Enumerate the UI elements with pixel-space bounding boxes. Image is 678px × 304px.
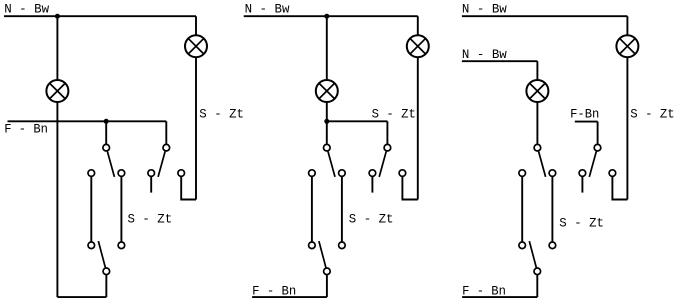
wire S5 right contact to lamp E4 [402, 173, 417, 199]
switch S1 two-way (circuit 1 upper left) [88, 144, 125, 177]
svg-text:F - Bn: F - Bn [4, 122, 48, 136]
wire lamp E5 drop to S7 common [536, 61, 538, 148]
wire correspondence wire B circuit 2 [341, 173, 343, 245]
lamp E3 circuit 2 [316, 80, 338, 102]
wire stub at S2 left contact [150, 173, 152, 193]
svg-text:S - Zt: S - Zt [559, 216, 604, 230]
svg-text:N - Bw: N - Bw [462, 48, 507, 62]
wire S5 common feed [386, 121, 388, 147]
wire F-Bn feed circuit 3 (bottom) [462, 296, 537, 298]
wire S8 common feed [597, 122, 599, 148]
switch S6 two-way (circuit 2 bottom) [309, 241, 346, 275]
svg-text:N - Bw: N - Bw [462, 3, 507, 17]
svg-text:F-Bn: F-Bn [570, 108, 599, 122]
wire correspondence wire B circuit 1 [120, 173, 122, 245]
lamp E2 circuit 1 [185, 35, 207, 57]
wire S1 common feed [105, 121, 107, 147]
junction N bus / lamp E1 tap [55, 14, 60, 19]
switch S5 two-way (circuit 2 upper right) [369, 144, 406, 177]
svg-text:S - Zt: S - Zt [372, 107, 416, 121]
circuit 3: two-way switching, separate N feeds [462, 3, 675, 299]
wire N-Bw bus 2 circuit 3 [462, 60, 538, 62]
svg-text:F - Bn: F - Bn [462, 284, 506, 298]
wire F-Bn mini feed [575, 121, 598, 123]
wire correspondence wire A circuit 2 [311, 173, 313, 245]
svg-text:N - Bw: N - Bw [245, 3, 290, 17]
svg-text:F - Bn: F - Bn [252, 285, 296, 299]
wire correspondence wire A circuit 1 [90, 173, 92, 245]
wire F-Bn feed circuit 2 (bottom) [252, 296, 327, 298]
junction lamp E3 / S4-S5 tap [324, 119, 329, 124]
junction N bus / lamp E3 tap [324, 14, 329, 19]
circuit 1: economy two-way switching (Sparwechselschaltung) [4, 3, 244, 298]
wire lamp E6 drop, x=627.4 [626, 16, 628, 199]
switch S9 two-way (circuit 3 bottom) [519, 241, 556, 275]
wire N-Bw bus circuit 2 [244, 15, 418, 17]
wire S9 common drop [536, 271, 538, 297]
wire S2 common feed [165, 121, 167, 147]
lamp E6 circuit 3 [616, 35, 638, 57]
switch S8 two-way (circuit 3 middle) [579, 144, 616, 177]
wire S2 right contact to lamp E2 [181, 173, 196, 199]
wire N-Bw bus 1 circuit 3 [462, 15, 628, 17]
lamp E1 circuit 1 [46, 80, 68, 102]
wire S4/S5 link [327, 120, 388, 122]
wire stub at S8 left contact [581, 173, 583, 193]
wire lamp E4 drop, x=417.8 [417, 16, 419, 199]
wire S3 common drop [105, 271, 107, 297]
lamp E4 circuit 2 [407, 35, 429, 57]
circuit 2: two-way switching, feed from below [244, 3, 429, 299]
wire N-Bw bus circuit 1 [4, 15, 196, 17]
switch S3 two-way (circuit 1 bottom) [88, 241, 125, 275]
lamp E5 circuit 3 [526, 80, 548, 102]
wire lamp E2 drop, x=196 [195, 16, 197, 199]
svg-text:N - Bw: N - Bw [4, 3, 49, 17]
wire bottom return circuit 1 [57, 296, 106, 298]
wire correspondence wire B circuit 3 [551, 173, 553, 245]
wire S6 common drop [326, 271, 328, 297]
wire F-Bn feed circuit 1 [8, 120, 167, 122]
switch S4 two-way (circuit 2 upper left) [309, 144, 346, 177]
junction F-Bn / S1 tap [104, 119, 109, 124]
wire stub at S5 left contact [371, 173, 373, 193]
wire S8 right contact to lamp E6 [612, 173, 627, 199]
svg-text:S - Zt: S - Zt [128, 212, 173, 226]
wire lamp E3 drop to S4 common [326, 16, 328, 148]
svg-text:S - Zt: S - Zt [199, 107, 244, 121]
switch S7 two-way (circuit 3 upper left) [519, 144, 556, 177]
svg-text:S - Zt: S - Zt [349, 212, 394, 226]
switch S2 two-way (circuit 1 upper right) [148, 144, 185, 177]
svg-text:S - Zt: S - Zt [630, 107, 674, 121]
wire lamp E1 drop / return, x=57 [56, 16, 58, 297]
wire correspondence wire A circuit 3 [521, 173, 523, 245]
